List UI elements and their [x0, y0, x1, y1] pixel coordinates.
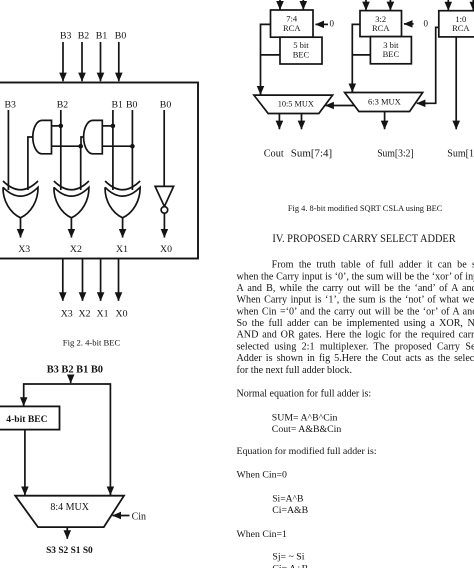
stage B branch into BEC [352, 54, 370, 56]
Fig 4 stage C: input arrows [447, 0, 449, 10]
svg-text:Cout: Cout [264, 149, 284, 160]
svg-text:RCA: RCA [283, 23, 301, 33]
svg-text:X3: X3 [18, 244, 30, 255]
svg-text:SUM= A^B^Cin: SUM= A^B^Cin [272, 413, 338, 424]
svg-text:Sum[1:0]: Sum[1:0] [447, 149, 474, 160]
svg-text:Sum[3:2]: Sum[3:2] [377, 149, 414, 160]
svg-text:Ci= A+B: Ci= A+B [272, 563, 308, 568]
box output arrow X1 [100, 259, 102, 301]
svg-text:From the truth table of full a: From the truth table of full adder it ca… [272, 260, 474, 271]
svg-text:when the Carry input is ‘0’, t: when the Carry input is ‘0’, the sum wil… [237, 271, 474, 282]
svg-text:Equation for modified full add: Equation for modified full adder is: [237, 446, 377, 457]
svg-text:Cin: Cin [132, 512, 146, 523]
XOR1 output arrow [20, 218, 22, 238]
wire G2 top input to B1 [102, 125, 113, 127]
svg-text:B0: B0 [160, 100, 172, 111]
svg-text:A and B, while the carry out w: A and B, while the carry out will be the… [237, 283, 474, 294]
10:5 MUX output arrow Sum74 [301, 114, 303, 130]
svg-text:S3 S2 S1 S0: S3 S2 S1 S0 [46, 546, 93, 556]
svg-text:When Cin=1: When Cin=1 [237, 529, 288, 540]
XOR2 output arrow [70, 218, 72, 238]
inverter bubble [161, 207, 168, 214]
6:3 MUX output arrow Sum32 [384, 112, 386, 130]
svg-text:X2: X2 [70, 244, 82, 255]
wire BEC output to MUX [24, 430, 26, 495]
Fig 2: 4-bit BEC enclosure box [0, 83, 198, 259]
1:0 RCA box [439, 11, 474, 37]
arrowhead right drop into MUX [109, 487, 111, 495]
svg-text:B0: B0 [115, 31, 127, 42]
svg-text:4-bit BEC: 4-bit BEC [6, 414, 47, 425]
arrowhead into BEC box [23, 398, 25, 406]
svg-text:When Carry input is ‘1’, the s: When Carry input is ‘1’, the sum is the … [237, 295, 474, 306]
wire B2 vertical [60, 110, 62, 190]
Fig 3: input arrow into rail [70, 375, 72, 384]
8:4 MUX trapezoid [15, 496, 124, 527]
wire B1 vertical [112, 110, 114, 190]
stage A branch into BEC [261, 54, 281, 56]
stage A wire RCA to BEC and down to MUX [261, 24, 271, 94]
5 bit BEC box [280, 37, 322, 64]
svg-text:Fig 4. 8-bit modified SQRT CSL: Fig 4. 8-bit modified SQRT CSLA using BE… [288, 203, 443, 213]
svg-text:10:5 MUX: 10:5 MUX [278, 100, 314, 109]
box output arrow X0 [118, 259, 120, 301]
svg-text:B1: B1 [96, 31, 108, 42]
svg-text:X3: X3 [61, 309, 73, 320]
junction dot B0/G2 [130, 144, 135, 149]
wire B0 vertical [131, 110, 133, 190]
svg-text:Ci=A&B: Ci=A&B [272, 505, 308, 516]
svg-text:IV. PROPOSED CARRY SELECT ADDE: IV. PROPOSED CARRY SELECT ADDER [272, 233, 456, 245]
svg-text:X0: X0 [160, 244, 172, 255]
XOR gate X3 [3, 181, 38, 190]
wire G2 bottom input to B0 [102, 145, 132, 147]
input arrow B2 into box [81, 42, 83, 81]
AND gate G2 [84, 120, 103, 153]
svg-text:So the full adder can be imple: So the full adder can be implemented usi… [237, 318, 474, 329]
carry wire from 1:0 RCA into 6:3 MUX [421, 27, 439, 103]
Fig 3: top rail with side drops [24, 384, 111, 495]
input arrow B1 into box [100, 42, 102, 81]
junction dot B2/G1 [59, 124, 64, 129]
svg-text:B3: B3 [5, 100, 17, 111]
svg-text:Si=A^B: Si=A^B [272, 494, 303, 505]
svg-text:BEC: BEC [383, 49, 400, 59]
junction dot B1/G2 [111, 124, 116, 129]
Fig 4 stage A: input arrows [279, 0, 281, 10]
box output arrow X3 [62, 259, 64, 301]
wire B3 vertical [7, 110, 9, 190]
svg-text:X1: X1 [97, 309, 109, 320]
7:4 RCA box [271, 10, 314, 37]
wire G1 top input to B2 [52, 125, 61, 127]
stage B wire RCA to BEC and down to MUX [352, 24, 360, 92]
NOT gate inverter [155, 186, 174, 206]
svg-text:Cout= A&B&Cin: Cout= A&B&Cin [272, 424, 342, 435]
svg-text:B2: B2 [78, 31, 90, 42]
Cin arrow [113, 515, 130, 517]
svg-text:selected using 2:1 multiplexer: selected using 2:1 multiplexer. The prop… [237, 341, 474, 352]
svg-text:Adder is shown in fig 5.Here t: Adder is shown in fig 5.Here the Cout ac… [237, 353, 474, 364]
Fig 4 stage B: input arrows [365, 0, 367, 10]
XOR gate X1 [105, 181, 140, 190]
AND gate G1 [33, 120, 52, 153]
svg-text:when Cin =‘0’ and the carry ou: when Cin =‘0’ and the carry out will be … [237, 306, 474, 317]
carry wire from 6:3 MUX into 10:5 MUX [325, 105, 354, 107]
svg-text:AND and OR gates. Here the log: AND and OR gates. Here the logic for the… [237, 330, 474, 341]
wire B0 to inverter [163, 110, 165, 186]
svg-text:Sum[7:4]: Sum[7:4] [291, 149, 332, 160]
6:3 MUX trapezoid [345, 93, 423, 112]
svg-text:When Cin=0: When Cin=0 [237, 470, 288, 481]
carry-0 arrow into 3:2 RCA [404, 23, 414, 25]
svg-text:B2: B2 [57, 100, 69, 111]
right column text [237, 203, 474, 568]
10:5 MUX trapezoid [254, 95, 333, 113]
svg-text:X1: X1 [116, 244, 128, 255]
svg-text:Fig 2. 4-bit BEC: Fig 2. 4-bit BEC [63, 339, 121, 348]
3 bit BEC box [370, 37, 411, 64]
wire G1 bottom input from G2 output [52, 145, 82, 147]
svg-text:8:4 MUX: 8:4 MUX [50, 502, 89, 513]
svg-text:6:3 MUX: 6:3 MUX [368, 97, 401, 107]
input arrow B0 into box [118, 42, 120, 81]
input arrow B3 into box [62, 42, 64, 81]
svg-text:for the next full adder block.: for the next full adder block. [237, 365, 352, 376]
10:5 MUX output arrow Cout [278, 114, 280, 130]
svg-text:B3 B2 B1 B0: B3 B2 B1 B0 [47, 364, 103, 375]
NOT output arrow [163, 213, 165, 237]
svg-text:B0: B0 [126, 100, 138, 111]
svg-text:0: 0 [424, 18, 429, 28]
1:0 RCA output arrow Sum10 [455, 37, 457, 129]
svg-text:Normal equation for full adder: Normal equation for full adder is: [237, 388, 372, 399]
box output arrow X2 [82, 259, 84, 301]
3:2 RCA box [360, 11, 402, 37]
carry-0 arrow into 7:4 RCA [316, 23, 329, 25]
wire G2out down to XOR2 [80, 146, 82, 190]
junction dot G2out branch [78, 144, 83, 149]
wire G2 output jog [81, 137, 84, 146]
svg-text:X2: X2 [79, 309, 91, 320]
svg-text:RCA: RCA [372, 23, 390, 33]
MUX output arrow [66, 527, 68, 539]
XOR gate X2 [54, 181, 89, 190]
wire G1 output to XOR1 [28, 137, 33, 190]
svg-text:Sj= ~ Si: Sj= ~ Si [272, 551, 304, 562]
svg-text:0: 0 [330, 18, 335, 28]
4-bit BEC box [0, 406, 60, 429]
svg-text:X0: X0 [116, 309, 128, 320]
svg-text:BEC: BEC [293, 49, 310, 59]
svg-text:B1: B1 [112, 100, 124, 111]
svg-text:RCA: RCA [452, 23, 470, 33]
XOR3 output arrow [122, 218, 124, 238]
svg-text:B3: B3 [60, 31, 72, 42]
